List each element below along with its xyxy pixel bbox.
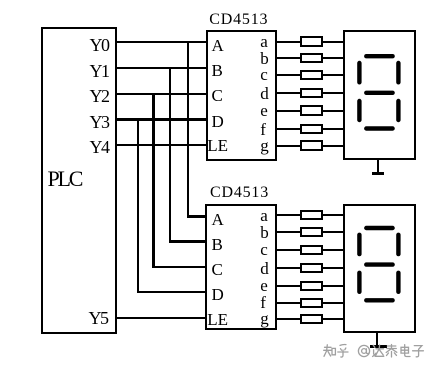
wire Y4 to U1.LE [116,144,207,146]
pin label Y2 [90,86,109,106]
wire Y0 to U2.A [187,215,206,217]
U2 output pin d [260,258,269,278]
label U2 CD4513 [210,183,269,203]
U2 output pin b [260,222,269,242]
resistor R1e [300,105,323,115]
wire resistor to display DS1 segment d [323,92,344,94]
resistor R2f [300,298,323,308]
U1 output pin a [260,32,268,52]
wire resistor to display DS1 segment a [323,41,344,43]
wire Y3 to U2.D [137,291,207,293]
wire resistor to display DS2 segment a [323,214,345,216]
wire resistor to display DS2 segment g [323,318,345,320]
wire resistor to display DS1 segment g [323,145,344,147]
U1 input pin B [212,61,223,81]
wire Y3 branch vertical [137,120,139,293]
wire U2.c to resistor [277,249,301,251]
wire U1.a to resistor [277,41,301,43]
wire Y2 to U2.C [152,266,206,268]
resistor R2b [300,227,323,237]
U2 input pin D [212,285,224,305]
wire resistor to display DS2 segment e [323,285,345,287]
wire Y0 to U1.A [116,41,207,43]
pin label Y5 [89,308,108,328]
resistor R2e [300,281,323,291]
pin label Y0 [90,35,109,55]
7-segment display DS2 [343,204,416,334]
ground symbol for DS2 [376,333,378,347]
U2 input pin A [212,210,224,230]
wire U1.f to resistor [277,128,301,130]
wire Y1 branch vertical [169,68,171,241]
pin label Y4 [90,137,109,157]
wire U1.d to resistor [277,92,301,94]
resistor R1b [300,53,323,63]
U1 output pin e [260,101,268,121]
wire resistor to display DS2 segment d [323,267,345,269]
wire Y1 to U1.B [116,67,207,69]
U2 input pin B [212,234,223,254]
U2 output pin c [260,240,268,260]
U2 output pin g [260,309,269,329]
resistor R2d [300,263,323,273]
U1 input pin C [212,86,223,106]
pin label Y3 [90,112,109,132]
BCD decoder U2 CD4513 [205,204,277,330]
wire Y0 branch vertical [187,42,189,216]
BCD decoder U1 CD4513 [206,30,277,160]
wire Y3 to U1.D [116,118,207,120]
U2 input pin C [212,259,223,279]
wire resistor to display DS2 segment c [323,249,345,251]
wire resistor to display DS1 segment b [323,57,344,59]
U1 output pin g [260,136,269,156]
wire U2.g to resistor [277,318,301,320]
U2 output pin e [260,276,268,296]
wire U1.e to resistor [277,110,301,112]
U1 input pin A [212,36,224,56]
U1 output pin f [260,119,266,139]
wire U2.b to resistor [277,231,301,233]
label U1 CD4513 [209,10,268,30]
wire U1.g to resistor [277,145,301,147]
resistor R1a [300,36,323,46]
pin label Y1 [90,61,109,81]
resistor R2a [300,210,323,220]
ground symbol for DS1 [377,159,379,174]
resistor R1f [300,124,323,134]
U1 output pin d [260,83,269,103]
resistor R2c [300,245,323,255]
resistor R1d [300,88,323,98]
7-segment display DS1 [343,30,416,160]
U1 input pin D [212,111,224,131]
wire Y1 to U2.B [169,240,206,242]
resistor R1c [300,70,323,80]
resistor R2g [300,314,323,324]
U1 input pin LE [207,136,228,156]
wire Y5 to U2.LE [116,317,206,319]
U2 output pin a [260,205,268,225]
U2 input pin LE [207,310,228,330]
wire U1.c to resistor [277,74,301,76]
resistor R1g [300,140,323,150]
U1 output pin b [260,48,269,68]
label PLC [48,167,82,191]
wire resistor to display DS2 segment f [323,302,345,304]
wire resistor to display DS1 segment c [323,74,344,76]
U1 output pin c [260,65,268,85]
PLC controller box [41,27,117,334]
wire Y2 to U1.C [116,93,207,95]
wire U2.d to resistor [277,267,301,269]
wire U2.a to resistor [277,214,301,216]
wire resistor to display DS1 segment e [323,110,344,112]
wire resistor to display DS1 segment f [323,128,344,130]
U2 output pin f [260,293,266,313]
wire U2.f to resistor [277,302,301,304]
wire resistor to display DS2 segment b [323,231,345,233]
wire Y2 branch vertical [152,94,154,267]
wire U1.b to resistor [277,57,301,59]
wire U2.e to resistor [277,285,301,287]
